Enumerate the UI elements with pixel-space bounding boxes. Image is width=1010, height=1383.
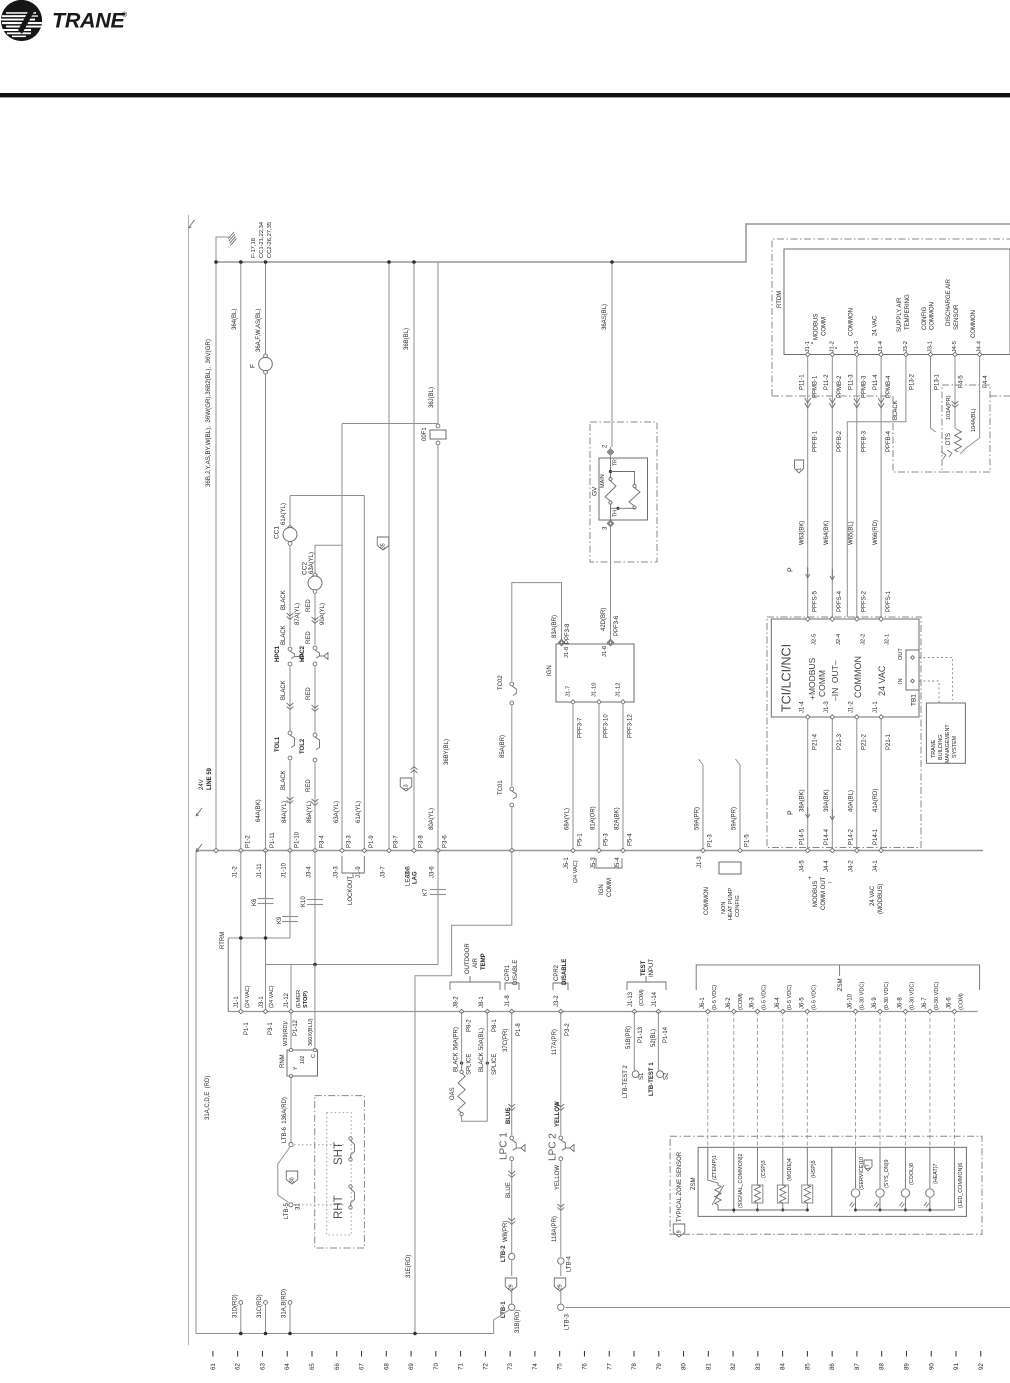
svg-text:J1-2: J1-2 bbox=[848, 701, 854, 713]
svg-text:36A,F,W,AS(BL): 36A,F,W,AS(BL) bbox=[256, 309, 262, 352]
svg-text:85A(BR): 85A(BR) bbox=[500, 735, 506, 758]
svg-text:LTB-5: LTB-5 bbox=[284, 1202, 290, 1219]
svg-text:J6-4: J6-4 bbox=[775, 997, 781, 1009]
svg-text:ZSM: ZSM bbox=[838, 978, 844, 991]
svg-text:TEST: TEST bbox=[641, 960, 647, 976]
svg-text:PPF3-12: PPF3-12 bbox=[628, 714, 634, 738]
svg-text:64A(BK): 64A(BK) bbox=[256, 799, 262, 822]
svg-text:IGN: IGN bbox=[599, 884, 605, 895]
svg-text:P4-5: P4-5 bbox=[959, 375, 965, 388]
svg-text:J5-4: J5-4 bbox=[615, 857, 621, 869]
svg-text:J2-2: J2-2 bbox=[860, 634, 866, 645]
svg-text:J4-4: J4-4 bbox=[977, 340, 983, 352]
svg-text:J1-2: J1-2 bbox=[232, 866, 238, 878]
svg-text:69: 69 bbox=[408, 1363, 415, 1370]
svg-text:(0-5 VDC): (0-5 VDC) bbox=[712, 985, 718, 1010]
svg-text:J3-3: J3-3 bbox=[334, 866, 340, 878]
svg-text:83: 83 bbox=[755, 1363, 762, 1370]
svg-text:(0-5 VDC): (0-5 VDC) bbox=[762, 985, 768, 1010]
svg-text:J6-9: J6-9 bbox=[872, 997, 878, 1009]
svg-text:J1-6: J1-6 bbox=[602, 646, 608, 657]
svg-text:P8-1: P8-1 bbox=[492, 1019, 498, 1032]
svg-text:ZSM: ZSM bbox=[691, 1177, 697, 1190]
svg-text:PPFS-5: PPFS-5 bbox=[812, 590, 818, 612]
svg-text:39A(BK): 39A(BK) bbox=[824, 789, 830, 812]
svg-text:LTB-2: LTB-2 bbox=[501, 1245, 507, 1262]
svg-text:74: 74 bbox=[532, 1363, 539, 1370]
svg-text:76: 76 bbox=[581, 1363, 588, 1370]
svg-text:TYPICAL ZONE SENSOR: TYPICAL ZONE SENSOR bbox=[677, 1151, 683, 1222]
svg-text:31A,C,D,E (RD): 31A,C,D,E (RD) bbox=[205, 1076, 211, 1120]
svg-text:TOL1: TOL1 bbox=[275, 736, 281, 752]
svg-text:RTRM: RTRM bbox=[220, 932, 226, 949]
svg-text:J1-1: J1-1 bbox=[234, 996, 240, 1008]
svg-text:COMM: COMM bbox=[817, 670, 827, 697]
svg-text:J4-1: J4-1 bbox=[873, 860, 879, 872]
svg-text:OAS: OAS bbox=[450, 1087, 456, 1100]
svg-text:90: 90 bbox=[928, 1363, 935, 1370]
svg-text:J1-8: J1-8 bbox=[564, 647, 570, 658]
svg-text:31E(RD): 31E(RD) bbox=[406, 1255, 412, 1278]
svg-text:RED: RED bbox=[306, 599, 312, 612]
svg-text:P14-4: P14-4 bbox=[824, 828, 830, 845]
svg-text:3: 3 bbox=[603, 526, 609, 530]
svg-text:31A,B(RD): 31A,B(RD) bbox=[282, 1289, 288, 1318]
svg-text:2: 2 bbox=[603, 444, 609, 448]
svg-text:TR: TR bbox=[612, 459, 618, 466]
svg-text:(MODE)4: (MODE)4 bbox=[787, 1158, 793, 1181]
svg-text:P11-3: P11-3 bbox=[848, 374, 854, 390]
svg-text:91: 91 bbox=[953, 1363, 960, 1370]
svg-text:(24 VAC): (24 VAC) bbox=[245, 985, 251, 1008]
svg-text:19: 19 bbox=[677, 1230, 683, 1236]
svg-text:J1-11: J1-11 bbox=[257, 863, 263, 878]
svg-text:COMMON: COMMON bbox=[930, 302, 936, 330]
svg-text:DISABLE: DISABLE bbox=[562, 959, 568, 985]
svg-text:GV: GV bbox=[591, 486, 598, 496]
svg-text:AIR: AIR bbox=[473, 957, 479, 968]
svg-text:COMMON: COMMON bbox=[853, 656, 863, 698]
svg-text:LAG: LAG bbox=[413, 871, 419, 884]
svg-text:CONFIG: CONFIG bbox=[735, 895, 741, 917]
svg-text:HPC1: HPC1 bbox=[275, 645, 281, 662]
svg-text:36BY(BL): 36BY(BL) bbox=[444, 739, 450, 765]
svg-text:64: 64 bbox=[284, 1363, 291, 1370]
svg-text:17: 17 bbox=[866, 1164, 872, 1170]
svg-text:P13-1: P13-1 bbox=[935, 373, 941, 390]
svg-text:P1-1: P1-1 bbox=[244, 1022, 250, 1035]
svg-text:87: 87 bbox=[854, 1363, 861, 1370]
svg-text:J1-1: J1-1 bbox=[873, 701, 879, 713]
svg-text:J1-4: J1-4 bbox=[878, 340, 884, 352]
svg-text:(0-30 VDC): (0-30 VDC) bbox=[860, 982, 866, 1010]
svg-text:P3-1: P3-1 bbox=[268, 1022, 274, 1035]
svg-text:IGN: IGN bbox=[547, 665, 553, 676]
svg-text:W64(BK): W64(BK) bbox=[824, 521, 830, 545]
svg-text:COMM: COMM bbox=[607, 878, 613, 897]
svg-text:RHT: RHT bbox=[333, 1195, 345, 1219]
svg-text:J3-4: J3-4 bbox=[307, 866, 313, 878]
svg-text:J4-4: J4-4 bbox=[824, 860, 830, 872]
svg-text:COMM: COMM bbox=[822, 317, 828, 336]
svg-text:P14-1: P14-1 bbox=[873, 828, 879, 845]
svg-text:(HSP)5: (HSP)5 bbox=[811, 1160, 817, 1178]
svg-text:51B(PR): 51B(PR) bbox=[626, 1026, 632, 1049]
svg-text:COMM OUT: COMM OUT bbox=[821, 876, 827, 910]
svg-text:J6-3: J6-3 bbox=[749, 997, 755, 1009]
svg-text:TRANE: TRANE bbox=[931, 739, 937, 758]
svg-text:K7: K7 bbox=[423, 888, 429, 896]
svg-text:P11-4: P11-4 bbox=[873, 374, 879, 390]
svg-text:59A(PR): 59A(PR) bbox=[732, 807, 738, 830]
svg-text:J8-2: J8-2 bbox=[453, 996, 459, 1008]
svg-text:61A(YL): 61A(YL) bbox=[281, 503, 287, 525]
svg-text:S2: S2 bbox=[664, 1072, 670, 1080]
svg-text:TEMP: TEMP bbox=[481, 953, 487, 970]
svg-text:78: 78 bbox=[631, 1363, 638, 1370]
svg-text:DISABLE: DISABLE bbox=[513, 960, 519, 985]
svg-text:24 VAC: 24 VAC bbox=[877, 665, 887, 696]
svg-text:85: 85 bbox=[804, 1363, 811, 1370]
svg-text:36B,J,Y,AS,BY,W(BL), 36W(GR),: 36B,J,Y,AS,BY,W(BL), 36W(GR),36B2(BL), 3… bbox=[205, 339, 212, 487]
svg-text:29: 29 bbox=[558, 1284, 564, 1290]
svg-text:K10: K10 bbox=[301, 896, 307, 907]
svg-text:BLACK: BLACK bbox=[281, 625, 287, 645]
svg-text:P14-2: P14-2 bbox=[848, 828, 854, 845]
svg-text:J1-4: J1-4 bbox=[799, 701, 805, 713]
svg-text:P5-3: P5-3 bbox=[604, 833, 610, 846]
svg-text:(0-30 VDC): (0-30 VDC) bbox=[934, 982, 940, 1010]
svg-text:80A(YL): 80A(YL) bbox=[429, 808, 435, 830]
svg-text:(CSP)3: (CSP)3 bbox=[761, 1160, 767, 1178]
svg-text:COMMON: COMMON bbox=[971, 310, 977, 338]
svg-text:LTB-4: LTB-4 bbox=[567, 1255, 573, 1272]
svg-text:31: 31 bbox=[296, 1203, 302, 1210]
svg-text:(SIGNAL_COMMON)2: (SIGNAL_COMMON)2 bbox=[738, 1153, 744, 1208]
svg-text:LTB-TEST 1: LTB-TEST 1 bbox=[649, 1062, 655, 1096]
svg-text:BUILDING: BUILDING bbox=[938, 735, 944, 760]
svg-text:DTS: DTS bbox=[946, 433, 952, 445]
svg-text:RNM: RNM bbox=[280, 1054, 286, 1068]
svg-text:77: 77 bbox=[606, 1363, 613, 1370]
svg-text:82: 82 bbox=[730, 1363, 737, 1370]
svg-text:87A(YL): 87A(YL) bbox=[295, 603, 301, 625]
svg-text:J2-4: J2-4 bbox=[836, 633, 842, 645]
svg-text:LPC 1: LPC 1 bbox=[499, 1132, 510, 1160]
svg-text:CC2: CC2 bbox=[301, 562, 308, 575]
svg-text:HPC2: HPC2 bbox=[300, 645, 306, 662]
svg-text:J1-3: J1-3 bbox=[854, 341, 860, 352]
svg-text:24 VAC: 24 VAC bbox=[870, 885, 876, 906]
svg-text:(COM): (COM) bbox=[639, 989, 645, 1006]
svg-text:J4-5: J4-5 bbox=[952, 341, 958, 352]
svg-text:(COM): (COM) bbox=[738, 993, 744, 1010]
svg-text:K6: K6 bbox=[252, 898, 258, 906]
svg-text:102: 102 bbox=[300, 1055, 306, 1064]
svg-text:+: + bbox=[808, 876, 812, 882]
svg-text:68A(YL): 68A(YL) bbox=[565, 808, 571, 830]
svg-text:J1-2: J1-2 bbox=[829, 341, 835, 352]
svg-text:31C(RD): 31C(RD) bbox=[257, 1294, 263, 1318]
svg-text:(EMER: (EMER bbox=[296, 990, 302, 1008]
svg-text:J6-2: J6-2 bbox=[726, 997, 732, 1009]
svg-text:PPFB-3: PPFB-3 bbox=[861, 430, 867, 452]
svg-text:COMMON: COMMON bbox=[849, 308, 855, 336]
svg-text:BLUE: BLUE bbox=[506, 1108, 512, 1124]
svg-text:13: 13 bbox=[404, 784, 410, 790]
svg-text:86A(YL): 86A(YL) bbox=[307, 801, 313, 823]
svg-text:W66(RD): W66(RD) bbox=[873, 520, 879, 545]
svg-text:PPFS-2: PPFS-2 bbox=[861, 590, 867, 612]
svg-text:J3-2: J3-2 bbox=[554, 995, 560, 1007]
svg-text:P: P bbox=[788, 567, 795, 572]
svg-text:TCI/LCI/NCI: TCI/LCI/NCI bbox=[780, 644, 794, 712]
svg-text:360X(BLU): 360X(BLU) bbox=[308, 1018, 314, 1046]
svg-text:P13-2: P13-2 bbox=[910, 373, 916, 390]
svg-text:RED: RED bbox=[306, 779, 312, 792]
svg-text:BLACK: BLACK bbox=[453, 1052, 459, 1072]
svg-text:84: 84 bbox=[780, 1363, 787, 1370]
svg-text:P21-2: P21-2 bbox=[861, 733, 867, 750]
svg-text:88: 88 bbox=[879, 1363, 886, 1370]
svg-text:PPMB-1: PPMB-1 bbox=[812, 375, 818, 398]
svg-text:STOP): STOP) bbox=[303, 991, 309, 1008]
svg-text:TC01: TC01 bbox=[498, 780, 504, 795]
svg-text:PPFB-4: PPFB-4 bbox=[886, 430, 892, 452]
svg-text:(ZTEMP)1: (ZTEMP)1 bbox=[712, 1155, 718, 1180]
svg-text:J4-2: J4-2 bbox=[848, 860, 854, 872]
svg-text:P14-5: P14-5 bbox=[799, 828, 805, 845]
svg-text:J1-8: J1-8 bbox=[505, 995, 511, 1007]
svg-text:89: 89 bbox=[903, 1363, 910, 1370]
svg-text:TC02: TC02 bbox=[498, 675, 504, 690]
svg-text:24V: 24V bbox=[199, 779, 205, 790]
svg-text:J8-1: J8-1 bbox=[479, 996, 485, 1008]
svg-text:LINE 59: LINE 59 bbox=[207, 767, 213, 790]
svg-text:MODBUS: MODBUS bbox=[813, 881, 819, 907]
svg-text:COMMON: COMMON bbox=[704, 887, 710, 915]
svg-text:P5-4: P5-4 bbox=[628, 833, 634, 846]
svg-text:(SYS_ON)9: (SYS_ON)9 bbox=[884, 1160, 890, 1188]
svg-text:J1-9: J1-9 bbox=[356, 866, 362, 878]
svg-text:P1-14: P1-14 bbox=[663, 1026, 669, 1043]
svg-text:86: 86 bbox=[829, 1363, 836, 1370]
svg-text:PPFS-1: PPFS-1 bbox=[886, 590, 892, 612]
svg-text:W63(BK): W63(BK) bbox=[799, 521, 805, 545]
svg-text:00F1: 00F1 bbox=[422, 427, 428, 441]
svg-text:(24 VAC): (24 VAC) bbox=[573, 860, 579, 883]
svg-text:J4-5: J4-5 bbox=[799, 860, 805, 872]
svg-text:P1-10: P1-10 bbox=[295, 831, 301, 848]
svg-text:J6-5: J6-5 bbox=[799, 997, 805, 1009]
svg-text:TOL2: TOL2 bbox=[300, 738, 306, 754]
svg-text:68: 68 bbox=[383, 1363, 390, 1370]
svg-text:HEAT PUMP: HEAT PUMP bbox=[728, 888, 734, 920]
svg-text:(MODBUS): (MODBUS) bbox=[878, 884, 884, 914]
svg-text:SUPPLY AIR: SUPPLY AIR bbox=[897, 297, 903, 332]
svg-text:61: 61 bbox=[210, 1363, 217, 1370]
svg-text:J1-7: J1-7 bbox=[566, 686, 572, 697]
svg-text:IN: IN bbox=[898, 678, 904, 684]
svg-text:+MODBUS: +MODBUS bbox=[807, 657, 817, 700]
svg-text:P: P bbox=[788, 810, 795, 815]
svg-text:PPMB-2: PPMB-2 bbox=[837, 375, 843, 398]
svg-text:364(BL): 364(BL) bbox=[232, 309, 238, 330]
svg-text:TRANE: TRANE bbox=[52, 9, 126, 33]
svg-text:PPF3-8: PPF3-8 bbox=[565, 623, 571, 644]
svg-text:K9: K9 bbox=[277, 916, 283, 924]
svg-text:65: 65 bbox=[309, 1363, 316, 1370]
svg-text:(COM): (COM) bbox=[959, 993, 965, 1010]
svg-text:J1-12: J1-12 bbox=[616, 682, 622, 697]
svg-text:J2-5: J2-5 bbox=[811, 634, 817, 645]
svg-text:SYSTEM: SYSTEM bbox=[952, 735, 958, 758]
svg-text:CONFIG: CONFIG bbox=[922, 306, 928, 330]
svg-text:63: 63 bbox=[259, 1363, 266, 1370]
svg-text:P3-6: P3-6 bbox=[443, 835, 449, 848]
svg-text:J6-7: J6-7 bbox=[922, 997, 928, 1009]
svg-text:38A(BK): 38A(BK) bbox=[799, 789, 805, 812]
svg-text:75: 75 bbox=[557, 1363, 564, 1370]
svg-text:81A(OR): 81A(OR) bbox=[591, 806, 597, 830]
svg-text:(0-30 VDC): (0-30 VDC) bbox=[884, 982, 890, 1010]
svg-text:29: 29 bbox=[509, 1284, 515, 1290]
svg-text:31D(RD): 31D(RD) bbox=[232, 1294, 238, 1318]
svg-text:J2-1: J2-1 bbox=[885, 634, 891, 645]
svg-text:NON: NON bbox=[721, 902, 727, 914]
svg-text:J5-1: J5-1 bbox=[564, 857, 570, 869]
svg-text:P11-2: P11-2 bbox=[824, 374, 830, 390]
svg-text:P1-9: P1-9 bbox=[369, 835, 375, 848]
svg-text:LPC 2: LPC 2 bbox=[548, 1133, 559, 1161]
svg-text:P1-12: P1-12 bbox=[293, 1019, 299, 1036]
svg-text:82A(BK): 82A(BK) bbox=[615, 807, 621, 830]
svg-text:(LED_COMMON)6: (LED_COMMON)6 bbox=[958, 1163, 964, 1208]
svg-text:LTB-1: LTB-1 bbox=[501, 1301, 507, 1318]
svg-text:(0-5 VDC): (0-5 VDC) bbox=[812, 985, 818, 1010]
svg-text:PPF3-10: PPF3-10 bbox=[604, 714, 610, 738]
svg-text:1: 1 bbox=[797, 468, 803, 471]
svg-text:PPFS-4: PPFS-4 bbox=[837, 590, 843, 612]
svg-text:92: 92 bbox=[978, 1363, 985, 1370]
svg-text:W65(BL): W65(BL) bbox=[848, 521, 854, 545]
svg-text:52(BL): 52(BL) bbox=[651, 1029, 657, 1047]
svg-text:80: 80 bbox=[681, 1363, 688, 1370]
svg-text:J6-1: J6-1 bbox=[700, 997, 706, 1009]
svg-text:PPMB-3: PPMB-3 bbox=[861, 375, 867, 398]
svg-text:79: 79 bbox=[656, 1363, 663, 1370]
svg-text:P5-1: P5-1 bbox=[578, 833, 584, 846]
svg-text:PPFB-2: PPFB-2 bbox=[837, 430, 843, 452]
svg-text:OUTDOOR: OUTDOOR bbox=[465, 943, 471, 974]
svg-text:(HEAT)7: (HEAT)7 bbox=[933, 1163, 939, 1184]
svg-text:61A(YL): 61A(YL) bbox=[356, 801, 362, 823]
svg-text:RED: RED bbox=[306, 631, 312, 644]
svg-text:P3-3: P3-3 bbox=[347, 835, 353, 848]
svg-text:LTB-6 136A(RD): LTB-6 136A(RD) bbox=[282, 1097, 288, 1143]
svg-text:BLACK: BLACK bbox=[281, 770, 287, 790]
svg-text:J3-2: J3-2 bbox=[903, 341, 909, 352]
svg-text:PPF3-7: PPF3-7 bbox=[578, 717, 584, 738]
svg-text:TB1: TB1 bbox=[910, 694, 917, 706]
svg-text:LTB-TEST 2: LTB-TEST 2 bbox=[623, 1065, 629, 1098]
svg-text:118A(PR): 118A(PR) bbox=[552, 1216, 558, 1242]
svg-text:(0-5 VDC): (0-5 VDC) bbox=[787, 985, 793, 1010]
svg-text:J3-6: J3-6 bbox=[430, 866, 436, 878]
svg-text:41A(RD): 41A(RD) bbox=[873, 789, 879, 812]
svg-text:CC1-21,22,34: CC1-21,22,34 bbox=[259, 221, 265, 258]
svg-text:73: 73 bbox=[507, 1363, 514, 1370]
svg-text:56A(PR): 56A(PR) bbox=[453, 1027, 459, 1050]
svg-text:W8(PR): W8(PR) bbox=[503, 1221, 509, 1242]
svg-text:C: C bbox=[311, 1054, 317, 1058]
svg-text:OUT: OUT bbox=[898, 648, 904, 660]
svg-text:CC1: CC1 bbox=[273, 526, 280, 539]
svg-text:31B(RD): 31B(RD) bbox=[515, 1310, 521, 1333]
svg-text:LEAD/: LEAD/ bbox=[406, 868, 412, 886]
svg-text:J3-7: J3-7 bbox=[381, 866, 387, 878]
svg-text:P1-2: P1-2 bbox=[245, 835, 251, 848]
svg-text:J6-6: J6-6 bbox=[946, 997, 952, 1009]
svg-text:S1: S1 bbox=[639, 1072, 645, 1080]
svg-text:(0-30 VDC): (0-30 VDC) bbox=[910, 982, 916, 1010]
svg-text:W39(RD)/: W39(RD)/ bbox=[283, 1021, 289, 1046]
svg-text:J3-1: J3-1 bbox=[928, 341, 934, 352]
svg-text:P4-4: P4-4 bbox=[983, 375, 989, 388]
svg-text:J1-13: J1-13 bbox=[628, 991, 634, 1007]
svg-text:66: 66 bbox=[334, 1363, 341, 1370]
svg-text:J3-1: J3-1 bbox=[259, 996, 265, 1008]
svg-text:83A(BR): 83A(BR) bbox=[552, 615, 558, 638]
svg-text:J1-1: J1-1 bbox=[805, 341, 811, 352]
svg-text:63A(YL): 63A(YL) bbox=[334, 801, 340, 823]
svg-text:Y: Y bbox=[293, 1066, 299, 1070]
svg-text:24 VAC: 24 VAC bbox=[873, 315, 879, 336]
svg-text:J6-10: J6-10 bbox=[847, 993, 853, 1009]
svg-text:F: F bbox=[249, 364, 256, 368]
svg-text:CPR1: CPR1 bbox=[505, 964, 511, 981]
svg-text:P3-4: P3-4 bbox=[320, 835, 326, 848]
svg-text:70: 70 bbox=[433, 1363, 440, 1370]
svg-text:J1-3: J1-3 bbox=[824, 701, 830, 713]
svg-text:BLACK: BLACK bbox=[893, 400, 899, 420]
svg-text:BLACK: BLACK bbox=[479, 1052, 485, 1072]
svg-text:P11-1: P11-1 bbox=[799, 374, 805, 390]
svg-text:59A(PR): 59A(PR) bbox=[695, 807, 701, 830]
svg-text:PPF3-6: PPF3-6 bbox=[614, 615, 620, 636]
svg-text:90A(YL): 90A(YL) bbox=[320, 603, 326, 625]
svg-text:P1-11: P1-11 bbox=[270, 832, 276, 848]
svg-text:36B(BL): 36B(BL) bbox=[404, 328, 410, 350]
svg-text:RTDM: RTDM bbox=[777, 291, 783, 308]
svg-text:P21-4: P21-4 bbox=[812, 733, 818, 750]
svg-text:72: 72 bbox=[482, 1363, 489, 1370]
svg-text:P1-13: P1-13 bbox=[638, 1026, 644, 1043]
svg-text:71: 71 bbox=[458, 1363, 465, 1370]
svg-text:TH: TH bbox=[612, 510, 618, 517]
svg-text:SPLICE: SPLICE bbox=[492, 1054, 498, 1075]
svg-text:J1-10: J1-10 bbox=[282, 862, 288, 878]
svg-text:67: 67 bbox=[359, 1363, 366, 1370]
svg-text:DISCHARGE AIR: DISCHARGE AIR bbox=[946, 278, 952, 326]
svg-text:SENSOR: SENSOR bbox=[954, 304, 960, 330]
svg-text:INPUT: INPUT bbox=[649, 959, 655, 977]
svg-text:CC2-26,27,35: CC2-26,27,35 bbox=[267, 222, 273, 258]
svg-text:–IN OUT–: –IN OUT– bbox=[830, 660, 840, 701]
svg-text:42D(BR): 42D(BR) bbox=[601, 608, 607, 631]
svg-text:81: 81 bbox=[705, 1363, 712, 1370]
svg-text:BLACK: BLACK bbox=[281, 680, 287, 700]
